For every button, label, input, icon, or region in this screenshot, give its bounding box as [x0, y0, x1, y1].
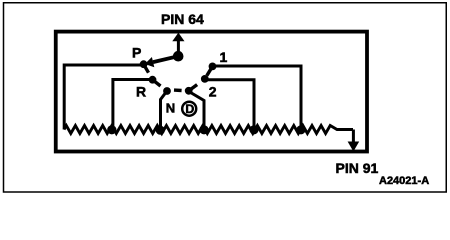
wire 1 tap [214, 66, 301, 130]
junction dot R tap [107, 125, 116, 134]
contact N [163, 87, 171, 95]
detent arc dash R-N [154, 81, 161, 86]
svg-text:D: D [185, 102, 194, 116]
svg-text:PIN 91: PIN 91 [336, 160, 379, 176]
wire to PIN 91 with arrow [348, 130, 360, 152]
outer border frame [4, 3, 447, 192]
svg-text:2: 2 [209, 84, 217, 100]
svg-text:P: P [132, 45, 141, 61]
junction dot N tap [156, 126, 165, 135]
contact 2 [201, 75, 209, 83]
resistor ladder zigzag [64, 126, 353, 134]
wiper pivot node [173, 51, 184, 62]
contact 1 [209, 63, 217, 71]
junction dot D tap [199, 125, 208, 134]
svg-text:N: N [166, 100, 175, 115]
wire N tap [161, 92, 167, 129]
detent arc dash P-R [145, 66, 149, 73]
junction dot 1 tap [296, 125, 305, 134]
sensor housing box [56, 32, 367, 152]
wire R tap [113, 80, 153, 130]
wire 2 tap [206, 80, 254, 130]
contact P [140, 60, 148, 68]
contact R [149, 76, 157, 84]
wire P tap [64, 65, 145, 130]
svg-text:PIN 64: PIN 64 [161, 11, 204, 27]
svg-text:R: R [136, 84, 146, 100]
detent arc dash 2-1 [207, 68, 212, 75]
junction dot 2 tap [249, 125, 258, 134]
wire D tap [190, 92, 204, 130]
wiper arm with arrow to P contact [145, 56, 178, 67]
detent arc dash N-D [174, 88, 182, 92]
svg-text:1: 1 [220, 49, 228, 65]
detent arc dash D-2 [190, 85, 197, 90]
arrow to PIN 64 [172, 33, 184, 56]
svg-text:A24021-A: A24021-A [379, 175, 429, 187]
contact D [185, 87, 193, 95]
circled D symbol [182, 102, 196, 116]
